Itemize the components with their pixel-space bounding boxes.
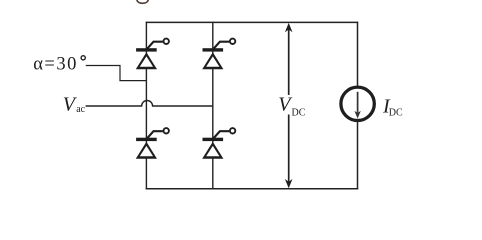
voltage arrowhead up [285, 23, 293, 32]
svg-text:DC: DC [389, 107, 403, 118]
voltage arrow VDC upper segment [288, 28, 290, 95]
thyristor T3 (top right) [202, 39, 235, 70]
svg-text:α=30: α=30 [33, 54, 78, 74]
wire right bridge leg [212, 22, 214, 190]
thyristor T1 (top left) [136, 39, 169, 70]
degree mark [81, 56, 85, 60]
wire bottom rail [146, 188, 359, 190]
wire top rail [146, 21, 359, 23]
thyristor T4 (bottom left) [136, 128, 169, 159]
wire right branch [357, 22, 359, 190]
svg-text:DC: DC [292, 107, 306, 118]
current source IDC circle [341, 87, 374, 120]
wire left bridge leg [145, 22, 147, 190]
voltage arrow VDC lower segment [288, 115, 290, 185]
voltage arrowhead down [285, 179, 293, 188]
thyristor T2 (bottom right) [202, 128, 235, 159]
svg-text:ac: ac [76, 104, 85, 115]
current source inner arrow [357, 92, 359, 113]
wire Vac lead with crossover hop [86, 101, 213, 107]
annotation leader line for alpha [86, 66, 147, 81]
caption text fragment (clipped letter g descender) [137, 0, 149, 3]
